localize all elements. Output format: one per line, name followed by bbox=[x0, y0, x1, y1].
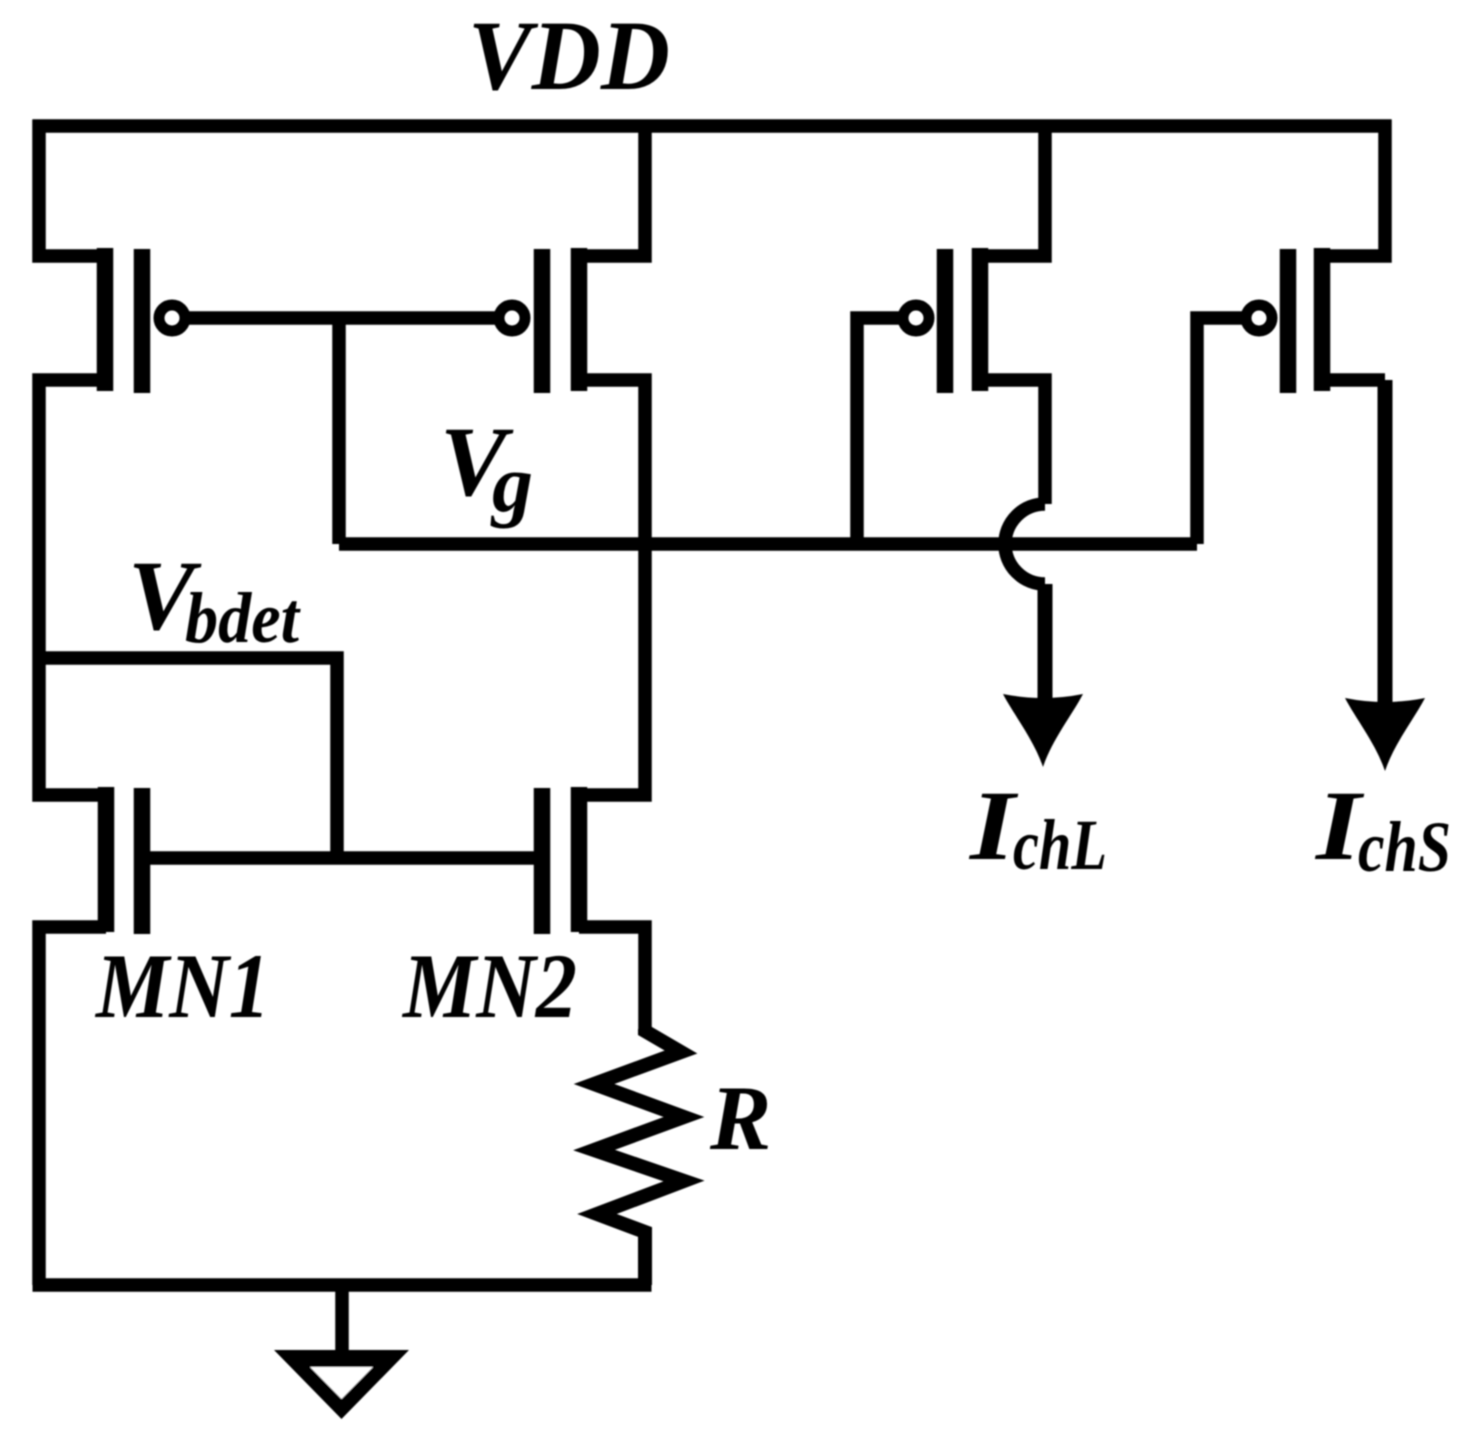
svg-text:g: g bbox=[490, 438, 533, 529]
svg-text:chL: chL bbox=[1013, 805, 1107, 885]
svg-text:MN2: MN2 bbox=[401, 935, 577, 1037]
svg-text:VDD: VDD bbox=[468, 0, 670, 111]
svg-text:I: I bbox=[969, 770, 1019, 881]
svg-text:R: R bbox=[709, 1067, 771, 1169]
svg-text:bdet: bdet bbox=[185, 578, 301, 658]
svg-text:MN1: MN1 bbox=[94, 935, 270, 1037]
svg-text:chS: chS bbox=[1358, 807, 1451, 887]
